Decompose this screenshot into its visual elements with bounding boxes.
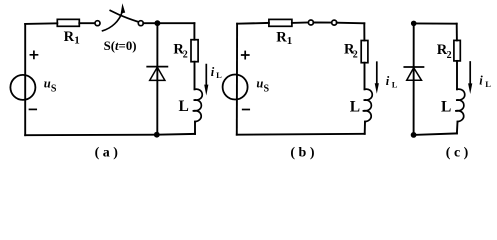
- resistor R2 (b): [361, 41, 368, 63]
- wire: (c) bottom wire: [414, 133, 457, 135]
- current arrow iL (b) shaft: [376, 62, 378, 83]
- wire: (b) bottom wire: [237, 133, 365, 136]
- svg-text:( b ): ( b ): [290, 146, 314, 161]
- wire: (c) R2 to L: [456, 61, 458, 89]
- inductor L (c): [455, 89, 465, 121]
- svg-text:R: R: [64, 29, 75, 45]
- svg-text:( c ): ( c ): [446, 146, 469, 161]
- plus sign (a): [30, 51, 37, 58]
- wire: (a) left branch vertical: [24, 24, 26, 135]
- current arrow iL (a) head: [204, 85, 208, 96]
- node: (a) top junction dot: [154, 20, 160, 26]
- svg-text:R: R: [276, 30, 287, 46]
- svg-text:1: 1: [74, 35, 80, 47]
- svg-text:2: 2: [353, 49, 358, 60]
- svg-text:i: i: [386, 74, 390, 88]
- wire: (b) right branch top: [363, 23, 365, 40]
- minus sign (a): [30, 108, 37, 110]
- svg-text:L: L: [179, 98, 189, 115]
- wire: (b) L to bottom corner: [364, 122, 366, 134]
- current arrow iL (c) shaft: [469, 62, 471, 84]
- node: (c) bottom-left dot: [411, 132, 417, 138]
- svg-text:L: L: [392, 79, 398, 89]
- switch S left terminal: [95, 21, 100, 26]
- plus sign (b): [242, 52, 249, 59]
- inductor L (b): [363, 89, 373, 121]
- wire: (a) right branch top: [193, 23, 195, 40]
- switch contact left (b): [308, 20, 313, 25]
- current arrow iL (c) head: [468, 83, 472, 94]
- svg-text:u: u: [256, 76, 263, 90]
- switch contact right (b): [332, 20, 337, 25]
- diode D (a) triangle: [150, 67, 165, 80]
- switch S right terminal: [138, 21, 143, 26]
- wire: (c) left branch vertical: [413, 23, 415, 134]
- resistor R2 (c): [454, 40, 460, 61]
- svg-text:2: 2: [183, 49, 188, 60]
- wire: (a) bottom wire: [25, 134, 195, 135]
- current arrow iL (a) shaft: [205, 65, 207, 85]
- svg-text:L: L: [216, 70, 222, 80]
- resistor R1 (b): [269, 19, 292, 26]
- diode D (c) triangle: [407, 68, 422, 81]
- wire: (a) R1 to switch left terminal: [79, 22, 95, 24]
- diode D (c) cathode bar: [404, 66, 423, 68]
- svg-text:L: L: [441, 99, 451, 116]
- wire: (a) top-left corner to R1: [25, 22, 57, 25]
- svg-text:S(t=0): S(t=0): [104, 39, 137, 53]
- wire: (c) top wire: [414, 22, 457, 24]
- svg-text:S: S: [51, 84, 57, 95]
- wire: (a) R2 to L: [194, 62, 196, 90]
- svg-text:S: S: [264, 83, 270, 94]
- resistor R2 (a): [191, 40, 198, 62]
- wire: (b) contact to top-right corner: [337, 22, 365, 25]
- svg-text:L: L: [485, 79, 491, 89]
- svg-text:i: i: [479, 73, 483, 87]
- wire: (a) switch to top-right corner: [143, 22, 194, 24]
- svg-text:L: L: [350, 98, 360, 115]
- inductor L (a): [193, 89, 203, 121]
- node: (a) bottom junction dot: [154, 132, 160, 138]
- wire: (b) left branch vertical: [236, 24, 238, 135]
- minus sign (b): [243, 109, 250, 111]
- wire: (b) between contacts: [313, 22, 331, 24]
- svg-text:u: u: [44, 76, 51, 90]
- wire: (c) L to bottom corner: [456, 122, 459, 134]
- switch S blade: [110, 11, 137, 22]
- svg-text:1: 1: [287, 35, 293, 47]
- wire: (c) right branch top: [456, 24, 458, 41]
- svg-text:( a ): ( a ): [95, 146, 119, 161]
- wire: (a) diode branch vertical: [156, 23, 158, 135]
- wire: (b) top-left corner to R1: [237, 22, 269, 25]
- switch S motion arc: [103, 13, 122, 31]
- svg-text:i: i: [211, 65, 215, 79]
- diode D (a) cathode bar: [147, 66, 167, 68]
- current arrow iL (b) head: [375, 83, 379, 94]
- wire: (a) L to bottom corner: [194, 122, 196, 134]
- voltage source uS (b): [223, 75, 248, 100]
- svg-text:2: 2: [447, 50, 452, 61]
- wire: (b) R2 to L: [364, 63, 366, 90]
- node: (c) top-left dot: [411, 21, 417, 27]
- voltage source uS (a): [10, 75, 35, 100]
- switch S arrowhead: [121, 3, 126, 13]
- resistor R1 (a): [57, 19, 79, 26]
- wire: (b) R1 to left contact: [292, 22, 309, 24]
